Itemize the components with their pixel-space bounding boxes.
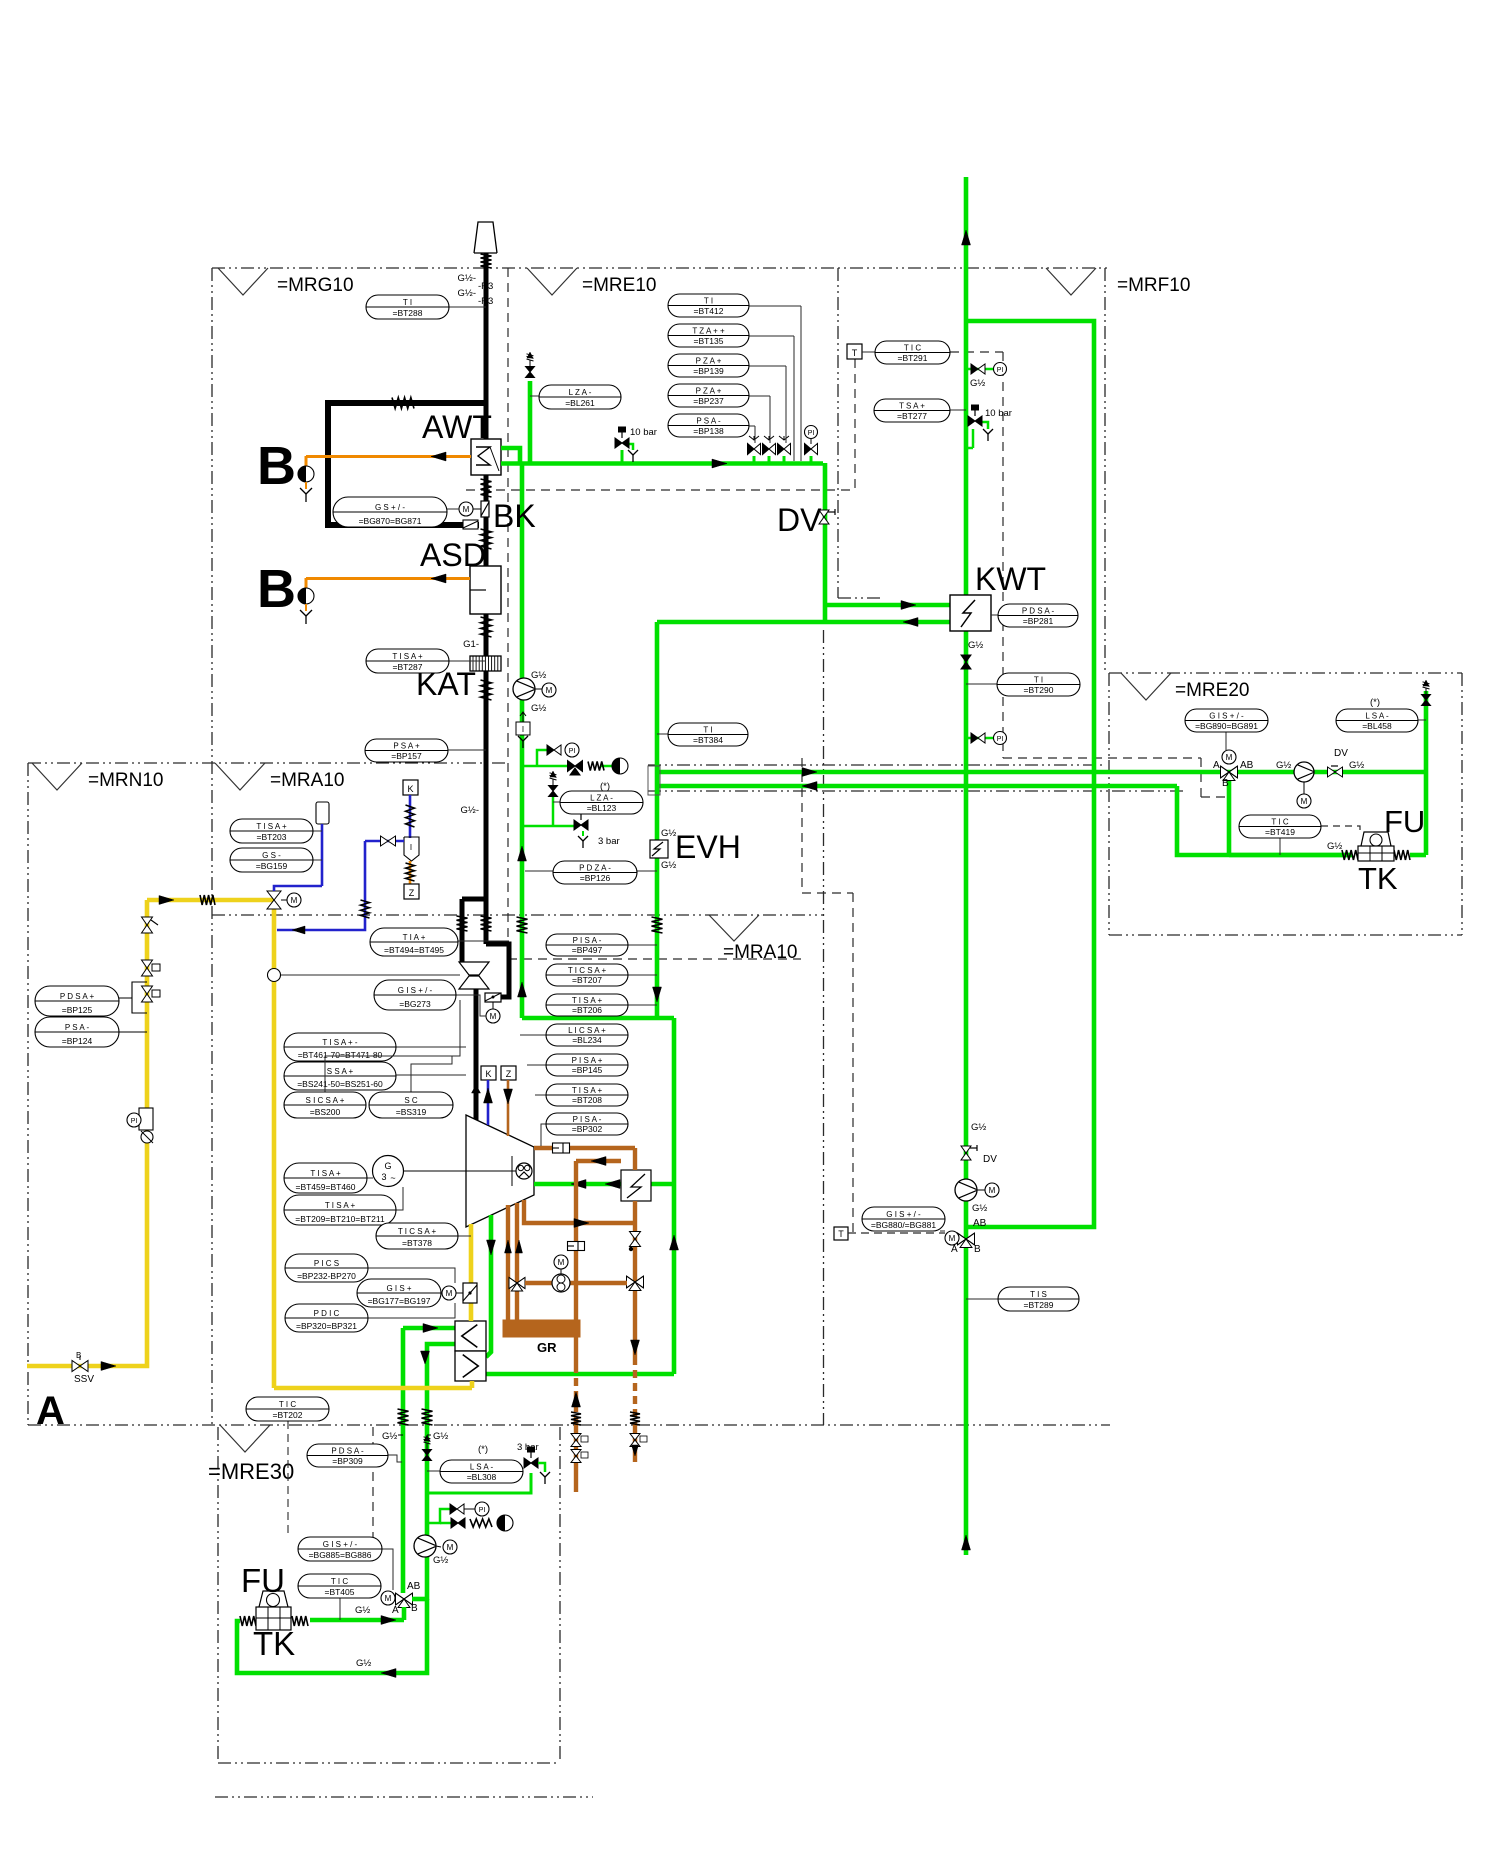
valve SSV on yellow	[72, 1351, 94, 1385]
instrument bubble TISA+ =BT208	[535, 1084, 628, 1106]
svg-text:=BP157: =BP157	[391, 751, 422, 761]
svg-text:DV: DV	[777, 502, 822, 538]
letter box T at TIC BT291	[847, 344, 875, 359]
compensator on blue branch	[361, 900, 370, 918]
sight glass and drain lower B	[298, 588, 314, 624]
letter box Z turbine	[501, 1066, 516, 1080]
svg-text:AWT: AWT	[422, 409, 492, 445]
instrument bubble TIC =BT202	[246, 1397, 329, 1537]
svg-text:B: B	[257, 436, 296, 496]
wire: green MRE30 TK loop	[237, 1599, 427, 1673]
instrument bubble SSA+ =BS241-50=BS251-60	[284, 1062, 466, 1090]
svg-text:G½: G½	[433, 1555, 448, 1566]
instrument bubble TI =BT288	[366, 295, 486, 319]
svg-text:G I S + / -: G I S + / -	[398, 986, 433, 995]
valve DV MRE20	[1328, 748, 1365, 777]
svg-text:T I S A +: T I S A +	[392, 652, 423, 661]
svg-text:-R3: -R3	[478, 281, 493, 292]
furnace FU TK MRE20	[1327, 804, 1425, 896]
svg-text:A: A	[1213, 760, 1220, 771]
turbine	[466, 1115, 534, 1227]
letter box K turbine	[481, 1066, 496, 1080]
svg-text:G½-: G½-	[458, 288, 476, 299]
svg-text:A: A	[951, 1244, 958, 1255]
svg-text:=BT412: =BT412	[693, 306, 723, 316]
svg-text:T I A +: T I A +	[403, 933, 426, 942]
wire: black recirculation loop left of AWT	[328, 403, 486, 525]
wire: black bypass loop right of reducer	[486, 944, 509, 997]
instrument bubble TISA+- =BT461-70=BT471-80	[284, 1033, 466, 1061]
valve below KWT	[961, 655, 971, 669]
svg-text:L Z A -: L Z A -	[569, 388, 592, 397]
pump MRE20 with motor	[1276, 760, 1314, 808]
wire: brown cooler outlet down	[633, 1201, 637, 1462]
svg-text:M: M	[446, 1289, 453, 1298]
heat exchanger small turbine exhaust cooler	[621, 1170, 651, 1201]
svg-text:=BP309: =BP309	[332, 1456, 363, 1466]
svg-text:P S A -: P S A -	[65, 1023, 90, 1032]
instrument bubble PDSA- =BP281	[991, 604, 1078, 627]
svg-text:=BS200: =BS200	[310, 1107, 341, 1117]
svg-text:=BT461-70=BT471-80: =BT461-70=BT471-80	[298, 1050, 383, 1060]
svg-text:P I S A -: P I S A -	[573, 936, 602, 945]
valves GD on GR drain	[571, 1434, 588, 1463]
svg-text:3: 3	[381, 1172, 386, 1182]
compensators at MRA10 boundary crossing	[517, 917, 663, 933]
svg-text:P D S A -: P D S A -	[331, 1446, 364, 1455]
svg-text:PI: PI	[997, 736, 1004, 743]
instrument bubble PICS =BP232-BP270	[285, 1254, 455, 1283]
instrument bubble PSA- =BP138	[668, 414, 749, 437]
svg-text:=BP145: =BP145	[572, 1065, 603, 1075]
wire: green cooling water into MW coolers	[403, 1328, 455, 1600]
svg-text:P D S A +: P D S A +	[60, 992, 95, 1001]
arrow down on brown drop	[631, 1340, 640, 1355]
instrument bubble TZA++ =BT135	[668, 324, 749, 347]
svg-text:PI: PI	[569, 748, 576, 755]
valve group v2	[763, 436, 776, 463]
svg-text:=BG273: =BG273	[399, 999, 431, 1009]
valve on yellow drop 2 with limit box	[142, 960, 161, 976]
catalyst KAT	[470, 656, 501, 671]
arrow up on black turbine inlet	[472, 1085, 481, 1106]
svg-text:A: A	[392, 1605, 399, 1616]
svg-text:P S A -: P S A -	[696, 416, 721, 425]
svg-text:G1-: G1-	[463, 639, 479, 650]
svg-text:M: M	[1301, 797, 1308, 806]
label A inlet	[36, 1389, 65, 1433]
svg-text:=BT290: =BT290	[1023, 685, 1053, 695]
svg-text:B: B	[257, 559, 296, 619]
sensor vessel on blue line	[274, 802, 329, 891]
instrument bubble LSA- =BL458	[1336, 697, 1426, 732]
wire: green riser right of GR	[672, 1018, 677, 1374]
svg-text:T S A +: T S A +	[899, 401, 925, 410]
instrument bubble TIA+ =BT494=BT495	[370, 928, 509, 956]
three-way valve MRE20 with motor	[1213, 750, 1254, 789]
svg-text:T I S A + -: T I S A + -	[322, 1038, 358, 1047]
svg-text:=BT208: =BT208	[572, 1095, 602, 1105]
svg-text:GR: GR	[537, 1340, 557, 1355]
arrow down on EVH riser	[653, 987, 662, 1002]
frame: MRE10 inner dashed box and control dash lines	[466, 352, 1229, 1233]
svg-text:G I S +: G I S +	[386, 1284, 411, 1293]
frame: MRE30 box	[215, 1427, 593, 1797]
instrument bubble GIS+/- =BG890=BG891	[1185, 709, 1268, 751]
instrument bubble PSA+ =BP157	[365, 739, 486, 762]
svg-text:EVH: EVH	[675, 829, 741, 865]
bypass damper box with motor	[485, 993, 501, 1023]
svg-text:A: A	[36, 1389, 65, 1433]
svg-text:Z: Z	[506, 1069, 512, 1079]
svg-text:T I: T I	[703, 725, 712, 734]
injection valve with motor on yellow	[267, 891, 301, 909]
letter box K upper	[403, 780, 418, 795]
svg-text:FU: FU	[241, 1562, 285, 1599]
svg-text:=MRF10: =MRF10	[1117, 275, 1190, 296]
svg-text:=BG177=BG197: =BG177=BG197	[368, 1296, 431, 1306]
svg-text:L I C S A +: L I C S A +	[568, 1026, 606, 1035]
tag I on sensor line	[404, 837, 419, 861]
wire: orange AWT condensate to B	[306, 456, 471, 467]
label KAT	[416, 666, 476, 702]
instrument bubble PSA- =BP124	[35, 1017, 119, 1047]
wire: green DV riser to KWT loop	[657, 463, 950, 622]
arrows on supply/return headers	[802, 768, 817, 791]
svg-text:I: I	[522, 725, 524, 734]
svg-text:TK: TK	[253, 1625, 295, 1662]
instrument bubble GIS+ =BG177=BG197	[357, 1279, 442, 1307]
wire: blue from K to I tag	[409, 795, 412, 838]
arrows into KWT	[901, 601, 918, 627]
10 bar relief on riser	[966, 405, 1012, 448]
valve on brown drop	[629, 1232, 641, 1252]
instrument bubble GS+/- =BG870=BG871	[333, 497, 459, 527]
valve DV on MRA10 riser	[961, 1122, 997, 1165]
svg-text:=BS319: =BS319	[396, 1107, 427, 1117]
svg-text:T I S A +: T I S A +	[310, 1169, 341, 1178]
instrument bubble TISA+ =BT203	[230, 819, 322, 843]
svg-text:T I S A +: T I S A +	[256, 822, 287, 831]
arrow up on GR riser	[670, 1235, 679, 1250]
labels G half MRE30 feeds	[382, 1431, 448, 1442]
svg-text:=BP124: =BP124	[62, 1036, 93, 1046]
svg-text:PI: PI	[479, 1507, 486, 1514]
pressure tap bracket MRN10	[119, 982, 147, 1013]
section flag =MRE30	[208, 1425, 294, 1484]
svg-text:PI: PI	[131, 1118, 138, 1125]
wire: blue K to turbine	[484, 1080, 493, 1125]
wire: yellow turbine gland line	[469, 1224, 474, 1321]
svg-text:=BT419: =BT419	[1265, 827, 1295, 837]
relief valve on LZA branch	[526, 352, 535, 378]
valve on blue branch	[381, 836, 396, 846]
svg-text:=BT209=BT210=BT211: =BT209=BT210=BT211	[295, 1214, 385, 1224]
speed pickup on yellow drop	[268, 969, 461, 982]
orifice on exhaust	[553, 1143, 570, 1153]
electric heater EVH	[650, 828, 741, 871]
svg-text:G I S + / -: G I S + / -	[886, 1210, 921, 1219]
wire: brown GR drain	[574, 1337, 578, 1492]
arrow to B lower	[431, 574, 446, 583]
svg-text:T I C: T I C	[1271, 817, 1288, 826]
svg-text:=BP232-BP270: =BP232-BP270	[297, 1271, 356, 1281]
instrument bubble LSA- =BL308	[427, 1444, 523, 1483]
instrument bubble TI =BT290	[966, 673, 1080, 696]
PI valve v4	[805, 426, 818, 464]
svg-text:DV: DV	[1334, 748, 1348, 759]
PI takeoff upper on riser	[966, 363, 1007, 390]
svg-text:G½: G½	[382, 1431, 397, 1442]
compensators on MRE30 feed lines	[398, 1409, 433, 1425]
svg-text:=BL261: =BL261	[565, 398, 595, 408]
wire: green LSA drain line MRE30	[427, 1442, 550, 1493]
svg-text:P Z A +: P Z A +	[696, 386, 722, 395]
svg-text:G½: G½	[968, 640, 983, 651]
section flag =MRE20	[1121, 673, 1249, 701]
svg-text:=MRA10: =MRA10	[270, 770, 344, 791]
instrument bubble GIS+/- =BG273	[374, 980, 486, 1016]
instrument bubble GIS+/- =BG880/=BG881	[862, 1207, 945, 1231]
letter box Z upper	[404, 884, 419, 899]
wire: black steam AWT to BK to ASD to KAT down to reducer	[462, 475, 486, 962]
svg-text:T I S A +: T I S A +	[572, 1086, 603, 1095]
svg-text:G½: G½	[661, 828, 676, 839]
label B upper	[257, 436, 296, 496]
gear pump with motor on crossover	[552, 1255, 570, 1292]
svg-text:G½: G½	[1349, 760, 1364, 771]
instrument bubble TISA+ =BT287	[366, 649, 486, 673]
labels G half at stack	[458, 273, 494, 816]
label ASD	[420, 537, 486, 573]
svg-text:10 bar: 10 bar	[985, 408, 1012, 419]
svg-text:=BL308: =BL308	[467, 1472, 497, 1482]
separator ASD	[470, 566, 501, 614]
svg-text:=MRN10: =MRN10	[88, 770, 164, 791]
svg-text:FU: FU	[1384, 804, 1425, 839]
svg-text:=BT378: =BT378	[402, 1238, 432, 1248]
3 bar relief on pump line	[522, 809, 620, 848]
svg-text:S S A +: S S A +	[327, 1067, 354, 1076]
svg-text:=BT288: =BT288	[392, 308, 422, 318]
instrument bubble PISA- =BP497	[546, 934, 657, 956]
svg-text:TK: TK	[1358, 861, 1398, 896]
svg-text:=BT459=BT460: =BT459=BT460	[295, 1182, 355, 1192]
svg-text:=BP497: =BP497	[572, 945, 603, 955]
svg-text:G½: G½	[356, 1658, 371, 1669]
svg-text:=BT202: =BT202	[272, 1410, 302, 1420]
svg-text:T I S A +: T I S A +	[325, 1201, 356, 1210]
svg-text:3 bar: 3 bar	[598, 836, 620, 847]
arrow up on pump line	[518, 982, 527, 997]
svg-text:P D I C: P D I C	[314, 1309, 340, 1318]
svg-text:=BS241-50=BS251-60: =BS241-50=BS251-60	[297, 1079, 383, 1089]
svg-text:=BG870=BG871: =BG870=BG871	[359, 516, 422, 526]
wire: green MRF10 top loop	[966, 321, 1094, 1227]
instrument bubble LZA- =BL261	[530, 385, 621, 409]
letter box T at MRA10	[834, 1227, 945, 1240]
instrument bubble PDSA- =BP309	[307, 1444, 402, 1467]
section flag =MRE10	[527, 268, 656, 296]
turbine coupling	[403, 1156, 532, 1186]
relief valve on MRE30 line	[423, 1435, 432, 1461]
instrument bubble PZA+ =BP237	[668, 384, 749, 407]
instrument bubble TICSA+ =BT378	[376, 1223, 471, 1249]
svg-text:=BG890=BG891: =BG890=BG891	[1195, 721, 1258, 731]
instrument bubble PDIC =BP320=BP321	[285, 1303, 455, 1332]
instrument bubble PISA- =BP302	[541, 1113, 628, 1146]
wire: black main steam line from stack to AWT	[484, 253, 489, 439]
svg-text:=BL234: =BL234	[572, 1035, 602, 1045]
svg-text:M: M	[989, 1186, 996, 1195]
svg-text:L S A -: L S A -	[470, 1462, 494, 1471]
svg-text:=MRA10: =MRA10	[723, 942, 797, 963]
wire: orange ASD condensate to B	[306, 578, 470, 589]
arrows on MRE30 TK loop	[381, 1616, 396, 1678]
svg-text:10 bar: 10 bar	[630, 427, 657, 438]
svg-text:AB: AB	[407, 1581, 421, 1592]
valve BK with motor	[459, 501, 489, 529]
svg-text:L Z A -: L Z A -	[590, 793, 613, 802]
wire: brown turbine bottom drain	[524, 1200, 635, 1223]
wire: green cooler outlet long run	[486, 1372, 674, 1377]
svg-text:G S -: G S -	[262, 851, 281, 860]
svg-text:=BL458: =BL458	[1362, 721, 1392, 731]
three-way valve on brown drop	[627, 1276, 644, 1290]
svg-text:(*): (*)	[1370, 697, 1380, 708]
svg-text:3 bar: 3 bar	[517, 1442, 539, 1453]
instrument bubble PDSA+ =BP125	[35, 986, 119, 1016]
instrument bubble SICSA+ =BS200	[284, 1000, 460, 1118]
svg-text:(*): (*)	[478, 1444, 488, 1455]
svg-text:=BT135: =BT135	[693, 336, 723, 346]
wire: brown crossover with pump	[525, 1281, 627, 1285]
three-way valve MRE30 with motor	[381, 1581, 421, 1616]
svg-text:G½: G½	[1327, 841, 1342, 852]
pump on MRA10 riser	[955, 1179, 999, 1214]
instrument bubble PDZA- =BP126	[525, 861, 657, 884]
svg-text:M: M	[558, 1258, 565, 1267]
wire: yellow MRN10 line	[27, 900, 274, 1366]
arrows on cooler outlet	[571, 1180, 620, 1189]
boundary crossing box on EVH riser	[648, 766, 660, 795]
svg-text:T I C: T I C	[279, 1400, 296, 1409]
wire: green turbine drain to coolers	[486, 1215, 491, 1357]
svg-text:T I: T I	[704, 296, 713, 305]
arrow to B upper	[431, 452, 446, 461]
svg-text:L S A -: L S A -	[1365, 711, 1389, 720]
heat exchanger MW lower cooler	[455, 1351, 486, 1381]
svg-text:G½: G½	[531, 703, 546, 714]
wire: green MRF10 main riser	[964, 177, 969, 1555]
stack chimney	[474, 222, 497, 253]
wire: green LZA branch above header	[528, 381, 533, 463]
svg-text:P D Z A -: P D Z A -	[579, 863, 611, 872]
svg-text:=BP139: =BP139	[693, 366, 724, 376]
section flag =MRN10	[32, 763, 164, 791]
svg-text:G½: G½	[971, 1122, 986, 1133]
svg-text:T I: T I	[403, 298, 412, 307]
compensators on black vertical	[457, 479, 492, 931]
svg-text:PI: PI	[808, 430, 815, 437]
svg-text:ASD: ASD	[420, 537, 486, 573]
wire: instrument lines from header to bubbles	[749, 306, 801, 461]
frame: MRE20 box	[1109, 673, 1462, 935]
compensator on yellow header	[200, 895, 215, 905]
svg-text:G½-: G½-	[458, 273, 476, 284]
valve DV main	[777, 502, 835, 538]
arrow up on EVH feed	[518, 846, 527, 861]
generator G3	[373, 1156, 404, 1187]
svg-text:P Z A +: P Z A +	[696, 356, 722, 365]
arrows on MRF10 riser	[962, 230, 971, 1550]
valve group on green header v1	[748, 436, 761, 463]
PI branch MRE30	[427, 1502, 489, 1523]
svg-text:M: M	[546, 686, 553, 695]
instrument bubble TIC =BT419	[1239, 815, 1360, 855]
svg-text:M: M	[291, 896, 298, 905]
svg-text:M: M	[949, 1234, 956, 1243]
pressure reducer valve on black line	[459, 962, 489, 989]
svg-text:B: B	[76, 1351, 81, 1360]
arrow on yellow header	[159, 896, 174, 905]
svg-text:S C: S C	[404, 1096, 418, 1105]
svg-text:=BT291: =BT291	[897, 353, 927, 363]
arrow on cooler return	[591, 1157, 606, 1166]
damper box on yellow gland line with motor	[442, 1283, 477, 1303]
three-way valve with motor on MRA10 riser	[945, 1218, 987, 1255]
instrument bubble GS- =BG159	[230, 848, 322, 872]
svg-text:=BT206: =BT206	[572, 1005, 602, 1015]
instrument bubble TISA+ =BT206	[546, 994, 657, 1016]
svg-text:Z: Z	[409, 888, 415, 898]
svg-text:=BP126: =BP126	[580, 873, 611, 883]
svg-text:=BT405: =BT405	[324, 1587, 354, 1597]
instrument bubble TSA+ =BT277	[874, 399, 966, 422]
svg-text:G½: G½	[661, 860, 676, 871]
svg-text:AB: AB	[973, 1218, 987, 1229]
wire: brown cooler return	[576, 1161, 621, 1320]
svg-text:P I S A -: P I S A -	[573, 1115, 602, 1124]
svg-text:T: T	[852, 348, 858, 358]
svg-text:=MRE30: =MRE30	[208, 1459, 294, 1484]
wire: green MRE20 supply and TK loop	[1229, 691, 1426, 855]
heat exchanger AWT	[471, 439, 501, 475]
label BK	[493, 498, 536, 534]
pump MRE30 with motor	[414, 1535, 457, 1566]
svg-text:G½: G½	[355, 1605, 370, 1616]
svg-text:T I: T I	[1034, 675, 1043, 684]
svg-text:M: M	[1226, 753, 1233, 762]
connector PSA- to line	[119, 1031, 147, 1033]
valve group v3	[778, 436, 791, 463]
svg-text:=BP237: =BP237	[693, 396, 724, 406]
compensator on stack line	[481, 254, 492, 268]
svg-text:=BT287: =BT287	[392, 662, 422, 672]
frame: outer dash-dot boundaries	[28, 268, 1186, 1425]
compensator on AWT loop top	[392, 398, 414, 409]
instrument bubble TISA+ =BT209=BT210=BT211	[284, 1187, 403, 1225]
compensator on brown drop	[630, 1412, 640, 1425]
svg-text:P D S A -: P D S A -	[1022, 606, 1055, 615]
svg-text:G½: G½	[970, 378, 985, 389]
furnace FU TK MRE30	[240, 1562, 371, 1669]
pump at KAT branch with motor	[513, 670, 556, 714]
svg-text:G S + / -: G S + / -	[375, 503, 405, 512]
svg-text:=BP138: =BP138	[693, 426, 724, 436]
svg-text:=BP320=BP321: =BP320=BP321	[296, 1321, 357, 1331]
instrument bubble TIC =BT291	[875, 341, 950, 364]
